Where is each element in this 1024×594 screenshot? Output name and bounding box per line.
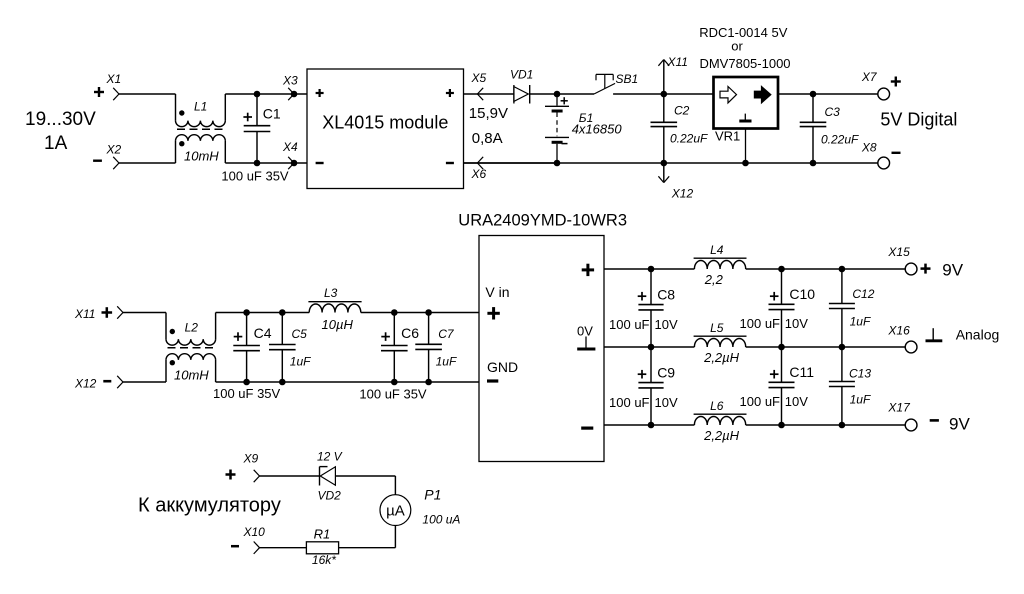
svg-text:X10: X10 <box>243 525 266 539</box>
svg-text:5V Digital: 5V Digital <box>880 110 957 130</box>
svg-text:X11: X11 <box>667 55 688 69</box>
svg-text:L5: L5 <box>710 321 724 335</box>
svg-text:10mH: 10mH <box>184 149 219 164</box>
svg-text:C6: C6 <box>401 325 419 341</box>
svg-text:X3: X3 <box>282 74 298 88</box>
svg-text:L1: L1 <box>194 100 207 114</box>
svg-text:100 uF: 100 uF <box>609 317 650 332</box>
svg-text:C4: C4 <box>254 325 272 341</box>
svg-text:L4: L4 <box>710 243 724 257</box>
svg-text:1uF: 1uF <box>850 392 871 406</box>
svg-text:L3: L3 <box>324 286 338 300</box>
svg-text:100 uF 35V: 100 uF 35V <box>213 386 281 401</box>
svg-text:C11: C11 <box>789 364 814 380</box>
svg-text:X12: X12 <box>74 377 97 391</box>
svg-text:X12: X12 <box>671 187 694 201</box>
svg-text:C5: C5 <box>292 327 308 341</box>
svg-text:0.22uF: 0.22uF <box>670 132 708 146</box>
svg-text:C8: C8 <box>657 287 675 303</box>
svg-text:X15: X15 <box>887 245 910 259</box>
svg-text:10V: 10V <box>785 316 808 331</box>
svg-text:DMV7805-1000: DMV7805-1000 <box>699 56 790 71</box>
svg-text:100 uF 35V: 100 uF 35V <box>221 169 289 184</box>
svg-text:X5: X5 <box>471 71 487 85</box>
svg-text:0,8A: 0,8A <box>472 130 503 147</box>
svg-text:4x16850: 4x16850 <box>572 122 623 137</box>
svg-text:10V: 10V <box>785 394 808 409</box>
svg-text:9V: 9V <box>949 415 970 434</box>
svg-text:19...30V: 19...30V <box>25 109 96 130</box>
svg-text:URA2409YMD-10WR3: URA2409YMD-10WR3 <box>458 211 627 229</box>
svg-text:V in: V in <box>485 284 509 300</box>
svg-text:VD1: VD1 <box>510 68 533 82</box>
svg-text:X8: X8 <box>861 141 877 155</box>
svg-text:100 uF: 100 uF <box>740 316 781 331</box>
svg-text:X7: X7 <box>861 70 878 84</box>
svg-text:L2: L2 <box>185 321 199 335</box>
svg-text:C9: C9 <box>657 365 675 381</box>
svg-text:X6: X6 <box>471 167 487 181</box>
svg-text:0V: 0V <box>577 324 593 339</box>
svg-text:X2: X2 <box>106 143 122 157</box>
svg-text:Analog: Analog <box>956 327 1000 343</box>
svg-text:C7: C7 <box>438 327 455 341</box>
svg-text:X16: X16 <box>887 324 910 338</box>
svg-text:VR1: VR1 <box>715 129 740 144</box>
svg-text:RDC1-0014 5V: RDC1-0014 5V <box>699 25 787 40</box>
svg-text:0.22uF: 0.22uF <box>821 133 859 147</box>
svg-text:2,2µH: 2,2µH <box>703 350 740 365</box>
svg-text:X1: X1 <box>106 72 122 86</box>
svg-text:10mH: 10mH <box>174 368 209 383</box>
svg-text:C10: C10 <box>789 286 815 302</box>
svg-text:C2: C2 <box>674 104 690 118</box>
svg-text:or: or <box>731 39 743 54</box>
svg-text:2,2: 2,2 <box>704 272 724 287</box>
svg-text:100 uF: 100 uF <box>609 395 650 410</box>
svg-text:9V: 9V <box>942 261 963 280</box>
svg-text:X11: X11 <box>74 307 95 321</box>
svg-text:X17: X17 <box>887 401 911 415</box>
svg-text:1uF: 1uF <box>436 355 457 369</box>
svg-text:C12: C12 <box>852 287 874 301</box>
svg-text:16k*: 16k* <box>312 553 336 567</box>
svg-text:VD2: VD2 <box>318 489 342 503</box>
svg-text:GND: GND <box>487 359 518 375</box>
svg-text:SB1: SB1 <box>616 72 639 86</box>
svg-text:C13: C13 <box>849 367 871 381</box>
svg-text:2,2µH: 2,2µH <box>703 428 740 443</box>
svg-text:К аккумулятору: К аккумулятору <box>138 495 281 517</box>
svg-text:1uF: 1uF <box>850 314 871 328</box>
svg-text:X4: X4 <box>282 140 298 154</box>
svg-text:1uF: 1uF <box>290 355 311 369</box>
svg-text:R1: R1 <box>314 527 331 542</box>
svg-text:100 uF: 100 uF <box>740 394 781 409</box>
svg-text:µA: µA <box>386 502 405 519</box>
svg-text:C3: C3 <box>825 105 841 119</box>
svg-text:C1: C1 <box>263 106 281 122</box>
svg-text:12 V: 12 V <box>317 450 343 464</box>
svg-text:L6: L6 <box>710 399 724 413</box>
svg-text:10V: 10V <box>655 395 678 410</box>
svg-text:10µH: 10µH <box>322 317 354 332</box>
svg-text:1A: 1A <box>44 133 68 154</box>
svg-text:100 uF 35V: 100 uF 35V <box>359 386 427 401</box>
svg-text:100 uA: 100 uA <box>422 513 460 527</box>
svg-text:10V: 10V <box>655 317 678 332</box>
svg-text:P1: P1 <box>424 487 441 503</box>
svg-text:15,9V: 15,9V <box>469 105 508 122</box>
svg-text:XL4015 module: XL4015 module <box>322 112 448 132</box>
svg-text:X9: X9 <box>243 452 259 466</box>
